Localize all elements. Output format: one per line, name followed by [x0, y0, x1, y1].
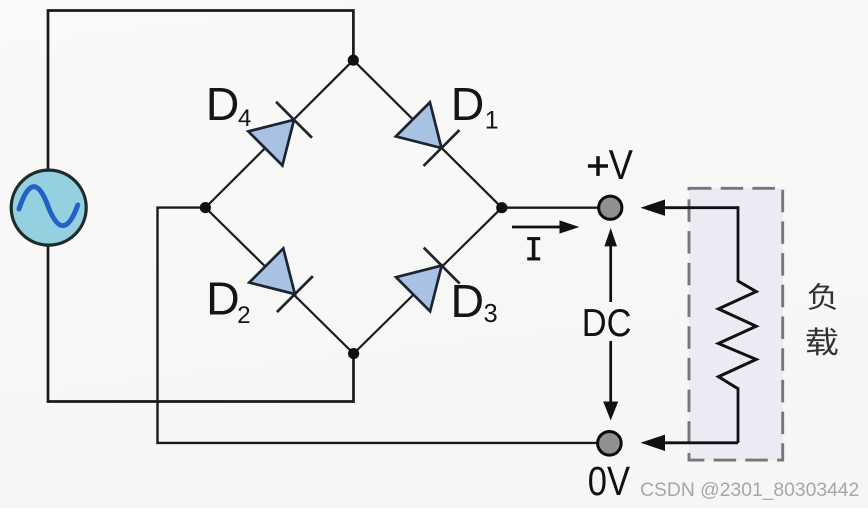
label 负载 (load) — [808, 283, 836, 310]
node: bridge left junction — [200, 202, 211, 213]
svg-text:D: D — [451, 275, 485, 327]
wire: bridge arm D3 (bottom node to right node) — [354, 208, 502, 354]
label I — [527, 239, 540, 259]
svg-text:3: 3 — [484, 300, 498, 328]
diode D3 — [395, 248, 460, 313]
load box (dashed) — [689, 188, 783, 460]
wire: bridge arm D4 (left node to top node) — [205, 60, 353, 207]
DC arrow up (toward +V) — [604, 228, 617, 302]
svg-text:V: V — [609, 141, 633, 188]
wire: AC source bottom to bridge bottom node — [48, 244, 354, 402]
svg-text:D: D — [451, 78, 485, 130]
svg-text:1: 1 — [485, 107, 499, 135]
svg-text:D: D — [206, 273, 240, 325]
diode D1 — [395, 101, 460, 166]
svg-text:DC: DC — [582, 302, 632, 345]
svg-text:4: 4 — [238, 105, 251, 132]
current arrow I — [512, 220, 579, 233]
DC arrow down (toward 0V) — [603, 341, 618, 421]
wire: load bottom with arrow into 0V — [641, 388, 739, 452]
terminal +V — [599, 196, 622, 219]
node: bridge top junction — [348, 55, 359, 66]
wire: load top with arrow into +V — [641, 200, 739, 283]
wire: left node to 0V rail — [158, 208, 599, 443]
wire: AC source top to bridge top node — [48, 11, 353, 173]
wire: right node to +V terminal — [502, 206, 599, 208]
svg-text:0V: 0V — [588, 458, 631, 504]
terminal 0V — [598, 432, 622, 456]
wire: bridge arm D2 (left node to bottom node) — [205, 208, 353, 354]
resistor (load) — [718, 281, 756, 389]
diode D4 — [247, 102, 312, 167]
node: bridge right junction — [496, 202, 507, 213]
label +V — [588, 156, 608, 176]
svg-text:D: D — [206, 78, 240, 130]
wire: bridge arm D1 (top node to right node) — [353, 60, 502, 208]
AC source V1 — [11, 170, 86, 245]
svg-text:2: 2 — [237, 302, 250, 329]
node: bridge bottom junction — [348, 348, 359, 359]
diode D2 — [248, 248, 313, 313]
svg-text:CSDN @2301_80303442: CSDN @2301_80303442 — [640, 479, 859, 501]
